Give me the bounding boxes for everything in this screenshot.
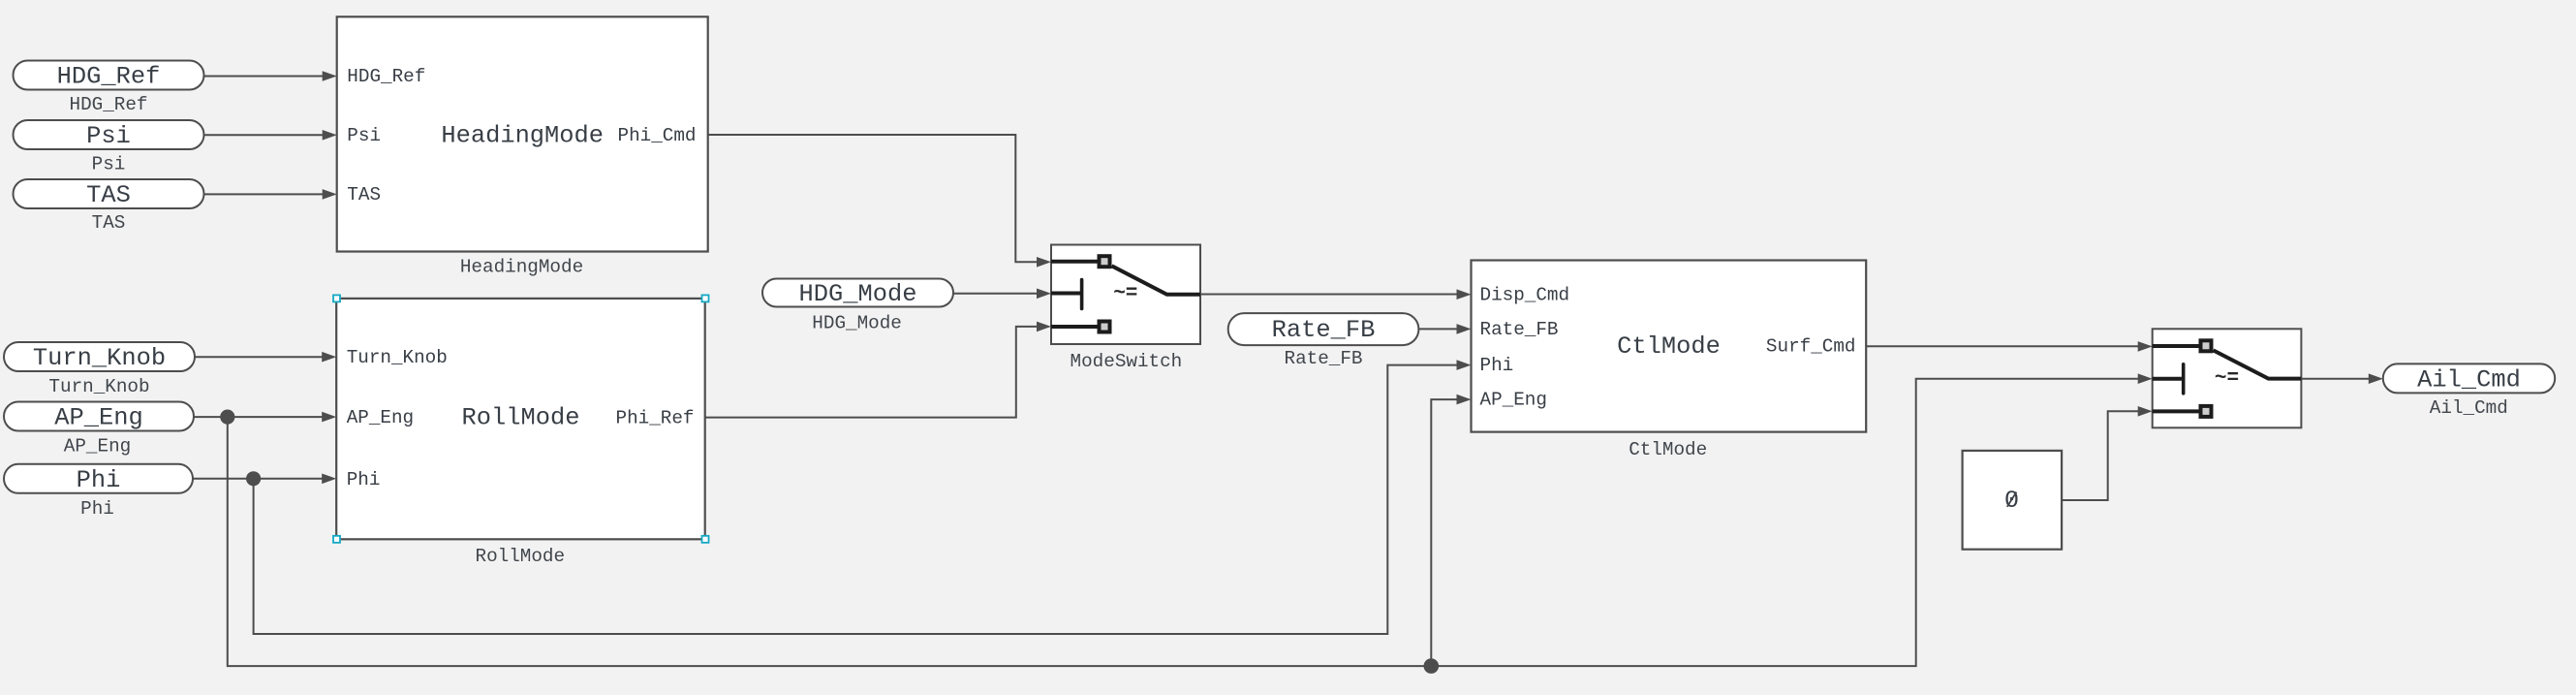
svg-text:Turn_Knob: Turn_Knob — [33, 344, 166, 372]
svg-text:HeadingMode: HeadingMode — [441, 122, 604, 150]
junction dot bottom run — [1424, 658, 1440, 674]
svg-text:Ail_Cmd: Ail_Cmd — [2417, 365, 2521, 394]
outport Ail_Cmd — [2383, 363, 2555, 419]
selection handle RollMode top-left — [333, 295, 340, 301]
svg-text:Phi: Phi — [77, 466, 121, 494]
selection handle RollMode bottom-right — [702, 536, 709, 543]
svg-text:TAS: TAS — [92, 212, 126, 234]
wire HDG_Ref to HeadingMode — [204, 71, 337, 81]
svg-text:HDG_Ref: HDG_Ref — [70, 94, 148, 115]
svg-text:RollMode: RollMode — [462, 404, 580, 432]
switch block ModeSwitch — [1051, 245, 1200, 373]
svg-text:Psi: Psi — [347, 125, 381, 146]
svg-text:TAS: TAS — [86, 181, 131, 209]
wire RollMode Phi_Ref to ModeSwitch in3 — [705, 322, 1051, 418]
svg-text:Psi: Psi — [86, 122, 131, 150]
wire TAS to HeadingMode — [204, 189, 337, 200]
wire AP_Eng to RollMode — [194, 412, 336, 423]
wire Switch2 out to Ail_Cmd — [2301, 373, 2382, 384]
inport Phi — [4, 464, 193, 520]
svg-text:AP_Eng: AP_Eng — [1480, 390, 1547, 411]
wire HeadingMode Phi_Cmd to ModeSwitch in1 — [708, 135, 1051, 268]
svg-text:RollMode: RollMode — [476, 546, 566, 567]
svg-text:AP_Eng: AP_Eng — [54, 404, 142, 432]
svg-text:Rate_FB: Rate_FB — [1272, 316, 1376, 344]
svg-text:Psi: Psi — [92, 154, 126, 175]
svg-text:Phi: Phi — [80, 498, 114, 520]
wire Phi branch to CtlMode Phi — [254, 360, 1472, 634]
inport AP_Eng — [4, 402, 194, 458]
constant block 0 — [1963, 451, 2063, 550]
inport Turn_Knob — [4, 342, 195, 397]
svg-text:HeadingMode: HeadingMode — [460, 257, 583, 278]
svg-text:CtlMode: CtlMode — [1629, 439, 1707, 460]
svg-text:TAS: TAS — [347, 184, 381, 205]
selection handle RollMode top-right — [702, 295, 709, 301]
svg-text:HDG_Ref: HDG_Ref — [57, 63, 161, 91]
wire CtlMode Surf_Cmd to Switch2 in1 — [1866, 341, 2153, 352]
wire constant 0 to Switch2 in3 — [2062, 406, 2153, 500]
svg-text:Rate_FB: Rate_FB — [1480, 319, 1559, 340]
svg-text:AP_Eng: AP_Eng — [347, 407, 414, 428]
inport TAS — [14, 179, 204, 234]
inport Psi — [14, 120, 204, 175]
wire AP_Eng branch bottom run to Switch2 in2 — [228, 373, 2153, 666]
svg-text:~=: ~= — [2215, 367, 2239, 390]
svg-text:Surf_Cmd: Surf_Cmd — [1766, 335, 1856, 357]
junction dot AP_Eng branch — [220, 410, 234, 425]
svg-text:Rate_FB: Rate_FB — [1285, 348, 1363, 369]
svg-text:Turn_Knob: Turn_Knob — [48, 376, 149, 397]
wire HDG_Mode to ModeSwitch in2 — [953, 289, 1051, 300]
svg-text:HDG_Mode: HDG_Mode — [812, 313, 902, 334]
subsystem block CtlMode — [1472, 261, 1867, 461]
wire ModeSwitch out to CtlMode Disp_Cmd — [1200, 289, 1472, 300]
wire Phi to RollMode — [193, 474, 336, 485]
svg-text:Turn_Knob: Turn_Knob — [347, 347, 448, 368]
svg-text:CtlMode: CtlMode — [1617, 332, 1721, 361]
inport Rate_FB — [1228, 313, 1419, 369]
wire Turn_Knob to RollMode — [195, 352, 336, 363]
svg-text:Phi_Cmd: Phi_Cmd — [618, 125, 697, 146]
inport HDG_Mode — [762, 279, 953, 334]
wire bottom run branch to CtlMode AP_Eng — [1431, 395, 1471, 666]
svg-text:~=: ~= — [1113, 283, 1137, 305]
switch block Switch2 — [2153, 329, 2302, 427]
svg-text:Ail_Cmd: Ail_Cmd — [2430, 397, 2508, 419]
svg-text:HDG_Ref: HDG_Ref — [347, 66, 425, 87]
svg-text:AP_Eng: AP_Eng — [64, 436, 131, 458]
subsystem block RollMode (selected) — [336, 299, 705, 567]
svg-text:ModeSwitch: ModeSwitch — [1071, 351, 1183, 372]
svg-text:Phi_Ref: Phi_Ref — [616, 407, 695, 428]
svg-text:Phi: Phi — [1480, 355, 1514, 376]
svg-text:Disp_Cmd: Disp_Cmd — [1480, 284, 1570, 305]
inport HDG_Ref — [14, 61, 204, 116]
wire Psi to HeadingMode — [204, 130, 337, 141]
subsystem block HeadingMode — [337, 16, 708, 277]
svg-text:Phi: Phi — [347, 469, 381, 490]
svg-text:HDG_Mode: HDG_Mode — [799, 280, 917, 308]
junction dot Phi branch — [246, 471, 261, 486]
selection handle RollMode bottom-left — [333, 536, 340, 543]
wire Rate_FB to CtlMode — [1418, 324, 1471, 334]
